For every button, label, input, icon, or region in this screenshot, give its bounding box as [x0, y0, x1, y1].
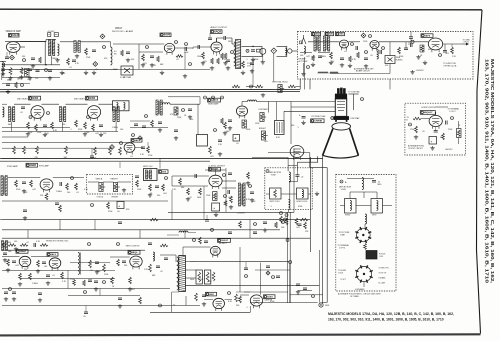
wire v20 vertical [259, 263, 261, 295]
wire bottom bus1 [2, 288, 170, 290]
tube V16 horiz osc b [49, 258, 61, 268]
tuner cap c [379, 50, 381, 54]
svg-text:COIL: COIL [247, 65, 251, 67]
svg-text:270K: 270K [410, 129, 415, 131]
svg-text:6BQ7: 6BQ7 [315, 34, 321, 36]
coil L2 tall [111, 47, 112, 51]
wire va out [241, 102, 243, 107]
resistor R58 [149, 264, 152, 272]
boxed label 6CB6 b [86, 96, 98, 100]
resistor R80 [232, 85, 240, 88]
wire if bus low [2, 157, 160, 159]
resistor R66 [280, 216, 283, 223]
wire vbus x323 [322, 156, 324, 303]
capacitor C9 [223, 36, 225, 40]
wire top flyback [167, 234, 179, 236]
wire h303 [250, 302, 318, 304]
resistor R20 [35, 124, 38, 131]
circled ref 42 [88, 243, 91, 246]
tube V7 uhf osc [428, 38, 442, 50]
svg-text:VERT OSC: VERT OSC [143, 166, 153, 168]
wire x204 drop [203, 186, 205, 220]
plug P2 [288, 49, 292, 53]
svg-text:470K: 470K [16, 189, 21, 191]
capacitor C79 [228, 231, 232, 233]
diamond tuner tp [361, 33, 366, 38]
wire if bus2 [2, 126, 70, 128]
label 5U4G damper [264, 295, 276, 299]
wire power h [240, 291, 250, 293]
antenna terminal [301, 38, 306, 44]
wire hv [183, 246, 210, 248]
svg-text:B: B [320, 304, 322, 307]
svg-text:VIDEO IF AMP: VIDEO IF AMP [6, 30, 22, 33]
capacitor C75 [303, 287, 307, 289]
resistor R1 [9, 68, 12, 76]
wire x276 drop [276, 102, 278, 121]
capacitor C72 [228, 119, 232, 121]
svg-text:560K: 560K [197, 197, 202, 199]
wire focus link [290, 294, 323, 296]
resistor R89 [221, 118, 224, 124]
svg-text:SYNC AMP: SYNC AMP [39, 165, 50, 168]
capacitor C64 [174, 129, 178, 131]
wire rail ext b [113, 43, 139, 45]
resistor R73 [23, 146, 26, 154]
resistor R22 [84, 122, 87, 129]
wire crt to yoke box [296, 162, 298, 171]
speaker plug P1 [260, 48, 266, 54]
resistor R88 [217, 58, 220, 64]
svg-text:.047: .047 [306, 56, 310, 58]
wire crt drive 1 [268, 102, 270, 113]
boxed label 6AW8 [26, 163, 38, 167]
transformer T12 flyback [179, 256, 186, 292]
ground G14 [349, 64, 351, 66]
resistor R26 row [65, 146, 68, 154]
wire jack drop [273, 54, 275, 81]
circled ref 46 [23, 59, 26, 62]
wire crt left drop [290, 102, 292, 145]
svg-text:OSC: OSC [339, 34, 344, 36]
ion trap magnet [331, 117, 334, 120]
capacitor C82 boxed plus [212, 203, 220, 211]
tube V13 sync amp [40, 179, 53, 190]
svg-text:MFD: MFD [378, 184, 383, 186]
svg-text:2ND VIDEO: 2ND VIDEO [17, 98, 28, 100]
diamond test point A [10, 55, 15, 60]
components bottom left row [8, 244, 16, 247]
wire audio top link [216, 38, 218, 42]
svg-text:HORIZ: HORIZ [345, 215, 350, 217]
svg-text:220K: 220K [113, 69, 118, 71]
capacitor C11 [318, 55, 322, 57]
transformer T13 focus coil [366, 251, 377, 260]
resistor R68 h [413, 117, 421, 120]
ground G29 [230, 205, 232, 207]
svg-text:100: 100 [120, 129, 123, 131]
svg-text:OF V1: OF V1 [464, 42, 469, 44]
wire drop x304 [304, 57, 306, 89]
svg-text:6BQ6: 6BQ6 [132, 252, 138, 254]
resistor R38 [149, 184, 152, 191]
tube V18 hv rect [210, 246, 220, 255]
resistor R44 [199, 188, 202, 195]
capacitor C55 [205, 219, 209, 221]
circled ref 16 [351, 43, 354, 46]
resistor R6 [142, 54, 145, 61]
wire neck right elbow [348, 93, 358, 95]
wire flyback top [175, 255, 177, 262]
svg-text:220K: 220K [399, 56, 404, 58]
circled ref 27 [71, 177, 74, 180]
capacitor C42 [156, 265, 160, 267]
capacitor C61 [31, 57, 35, 59]
resistor R4 [85, 48, 88, 55]
crt bell rim [332, 123, 351, 130]
circled ref 37 [409, 123, 412, 126]
resistor R30 [243, 121, 246, 128]
svg-text:470K: 470K [254, 59, 259, 61]
separator bus line lower [0, 91, 300, 93]
svg-text:270K: 270K [70, 279, 75, 281]
wire flyback down [173, 304, 175, 306]
wire sync rail [8, 177, 40, 179]
wire ho rails [2, 256, 20, 258]
transformer T14 left low [1, 241, 3, 251]
wire audio out top [216, 38, 218, 42]
circled ref 52 [132, 134, 135, 137]
resistor R57 [117, 259, 120, 266]
svg-text:470K: 470K [7, 80, 12, 82]
resistor R50 [7, 259, 10, 266]
capacitor C47 bl [84, 311, 88, 313]
circled ref 20 [307, 66, 310, 69]
boxed resistor R96 [213, 192, 217, 201]
capacitor C19 [99, 124, 103, 126]
svg-text:270K: 270K [86, 57, 91, 59]
svg-text:.02: .02 [160, 271, 163, 273]
resistor R49 [304, 222, 307, 229]
tube V4 label 6AQ5 [211, 30, 223, 34]
wire y262 ext [70, 262, 110, 264]
horiz band drop x250 [249, 220, 251, 239]
resistor R8 [176, 55, 183, 58]
wire lower link x68 [67, 271, 69, 289]
resistor R82 [151, 120, 154, 127]
ground G55 [264, 228, 266, 230]
circled ref 22 [47, 112, 50, 115]
svg-text:1 MEG: 1 MEG [56, 191, 62, 193]
wire y292 [244, 291, 288, 293]
wire y270b [255, 269, 290, 271]
svg-text:.05: .05 [422, 131, 425, 133]
svg-text:.1: .1 [246, 307, 248, 309]
svg-text:+: + [118, 204, 120, 208]
wire if rail b [66, 103, 88, 105]
svg-text:HORIZ COILS: HORIZ COILS [297, 201, 309, 203]
capacitor C6 [150, 55, 154, 57]
svg-text:560K: 560K [246, 129, 251, 131]
coil L4 ant [304, 46, 306, 49]
resistor R9 [202, 52, 205, 59]
wire vbus x294 [293, 149, 295, 213]
resistor R81 [39, 57, 42, 63]
ground G52 [49, 76, 51, 78]
wire yoke loop [350, 192, 377, 199]
wire y278 bus [20, 278, 115, 280]
boxed resistor R71 [457, 129, 462, 138]
wire flyback left down [171, 292, 173, 312]
diamond jack J1 [271, 48, 277, 54]
bottom margin bar [0, 334, 481, 335]
svg-text:+250VDC: +250VDC [416, 70, 425, 72]
svg-text:.01: .01 [52, 275, 55, 277]
boxed coil yoke left [270, 188, 282, 199]
ground G39 [415, 135, 417, 137]
tube V4 audio output [211, 42, 222, 52]
pot brightness [261, 131, 265, 140]
tube V1 video IF amp [6, 42, 20, 53]
resistor R40 [45, 193, 48, 200]
wire crt drive 2 [269, 101, 292, 103]
ground G7 [142, 63, 144, 65]
video amp cref row [204, 96, 207, 99]
wire y2855 [186, 284, 319, 286]
wire if bus1 [2, 131, 118, 133]
ground G59 [247, 181, 249, 183]
circled ref 49 [145, 115, 148, 118]
resistor R90 [73, 280, 76, 286]
speaker 2 loop [277, 46, 287, 56]
left edge stub coil [3, 107, 5, 110]
wire T1 bottom drop [51, 56, 53, 65]
svg-text:220K: 220K [448, 129, 453, 131]
svg-text:.001: .001 [143, 63, 147, 65]
ground G24 [219, 152, 221, 154]
resistor R70 [442, 133, 445, 140]
resistor R14 [312, 55, 315, 61]
ground G11 [262, 93, 264, 95]
capacitor C29 boxed [117, 202, 124, 209]
tube V9 3rd video if [87, 106, 100, 119]
wire if top left [2, 103, 7, 105]
svg-text:100: 100 [14, 241, 17, 243]
wire v7 out [443, 43, 462, 45]
sync bus extension [160, 200, 168, 202]
transformer T4 rf input [314, 36, 316, 51]
wire af link [175, 47, 193, 49]
wire crt grid lines [291, 101, 335, 103]
resistor R11 [255, 85, 263, 88]
ground G31 yoke [316, 192, 318, 194]
capacitor C30 [55, 202, 59, 204]
circled ref 45 [185, 43, 188, 46]
crt bottom wire staircase [310, 156, 327, 167]
wire x172 links [171, 176, 173, 186]
svg-text:100: 100 [67, 192, 70, 194]
pot vert hold [99, 183, 103, 192]
capacitor C46 [202, 294, 206, 296]
coil L14 tuner bottom [318, 72, 320, 74]
capacitor C62 [244, 267, 248, 269]
svg-text:120K: 120K [197, 56, 202, 58]
svg-text:1 MEG: 1 MEG [32, 283, 38, 285]
capacitor C32 [227, 190, 229, 194]
page frame right border [477, 10, 483, 334]
svg-text:1 OF T4: 1 OF T4 [449, 111, 455, 113]
vert controls dashed box [87, 174, 133, 194]
svg-text:.05: .05 [160, 112, 163, 114]
arrow to grid V1 [462, 43, 468, 45]
tube V21 horiz output alt [429, 115, 442, 126]
pot contrast [260, 113, 264, 122]
svg-text:HEIGHT: HEIGHT [112, 197, 120, 199]
svg-text:VERT: VERT [372, 215, 376, 217]
svg-text:120K: 120K [255, 123, 260, 125]
capacitor C77 cluster [266, 265, 270, 267]
boxed label 6W4 [206, 292, 217, 296]
resistor R87 [211, 58, 214, 64]
boxed label T1 pri [48, 33, 51, 37]
wire V1 top left [5, 41, 13, 43]
svg-text:4.5 MC: 4.5 MC [48, 31, 55, 33]
capacitor C54 [148, 242, 152, 244]
wire drop x300 [299, 79, 301, 89]
transformer T10 left edge [1, 176, 3, 196]
boxed label osc [336, 32, 345, 35]
svg-text:.1: .1 [70, 129, 72, 131]
svg-text:.05: .05 [83, 316, 86, 318]
svg-text:4 SPEAKER: 4 SPEAKER [355, 288, 365, 291]
tube V12 vert blanking [290, 146, 304, 158]
left edge coil input [2, 62, 4, 65]
crt bell bottom dish [322, 155, 358, 158]
svg-text:AT TUNER: AT TUNER [299, 60, 308, 63]
wire detail rails [340, 205, 345, 207]
wire y3123 [150, 311, 250, 313]
resistor R46 [275, 222, 278, 228]
svg-text:.05: .05 [95, 69, 98, 71]
coil L9 yoke bottom [289, 200, 291, 203]
node dot speaker [252, 46, 254, 48]
circled ref 13 [175, 41, 178, 44]
ground G4 [61, 71, 63, 73]
svg-text:100: 100 [62, 73, 65, 75]
wire y2905 stub [298, 290, 312, 292]
ground G36 [96, 270, 98, 272]
coil L15 top flyback [179, 231, 181, 233]
svg-text:YOKE: YOKE [341, 189, 347, 191]
wire S1 vertical 45 [44, 42, 46, 65]
ground G26 [123, 188, 125, 190]
wire V1 plate rail [13, 41, 46, 43]
svg-text:.001: .001 [163, 193, 167, 195]
boxed coil detail right [371, 199, 383, 214]
coil L8 yoke top [289, 172, 291, 174]
circled ref 56 [193, 239, 196, 242]
resistor R60 [129, 277, 132, 284]
svg-text:6AF4: 6AF4 [425, 34, 431, 37]
svg-text:ALTERNATE: FOLLW B (BOTL. CIRC: ALTERNATE: FOLLW B (BOTL. CIRCUIT USED W… [338, 292, 381, 295]
circled ref yoke detail [340, 180, 343, 183]
svg-text:.047: .047 [32, 189, 36, 191]
circled ref 14 [246, 49, 249, 52]
wire x253 drop [252, 58, 254, 87]
svg-text:.01: .01 [344, 51, 347, 53]
ground G35 [47, 281, 49, 283]
svg-text:TO PL OF: TO PL OF [379, 273, 387, 275]
component box delay line [275, 121, 285, 135]
wire yoke spine [289, 182, 291, 201]
resistor R10 [221, 53, 224, 59]
capacitor C51 boxed [429, 137, 437, 145]
tube V5 rf amp [339, 40, 348, 48]
svg-text:+: + [235, 136, 237, 140]
svg-text:330: 330 [22, 56, 25, 58]
ground G17 [412, 70, 414, 72]
tuner mid gnd [365, 64, 367, 66]
crystal box Y1 [385, 56, 395, 64]
svg-text:.005: .005 [264, 141, 268, 143]
tuner cref b [382, 47, 385, 50]
boxed coil yoke right [297, 188, 309, 199]
circled ref 15 [250, 85, 253, 88]
wire hbus3 [2, 237, 310, 239]
resistor R74 [109, 147, 112, 155]
resistor R47 [300, 218, 308, 221]
wire lower bus y295 [68, 295, 140, 297]
diamond test point B [100, 34, 105, 39]
crt neck [335, 99, 346, 117]
svg-text:+: + [213, 206, 215, 210]
resistor R24 [75, 120, 78, 127]
svg-text:220K: 220K [104, 274, 109, 276]
resistor R15 [349, 56, 352, 62]
circled ref 26 [214, 129, 217, 132]
wire v21 top [435, 112, 437, 115]
svg-text:ION TRAP: ION TRAP [351, 117, 361, 120]
ground G12 [330, 61, 332, 63]
svg-text:270K: 270K [363, 41, 368, 43]
crt pin stubs [337, 88, 339, 94]
capacitor C73 [94, 280, 98, 282]
ground G67 [215, 213, 217, 215]
circled ref 12 [146, 46, 149, 49]
boxed coil detail left [345, 199, 357, 214]
resistor R32 [209, 146, 212, 154]
ground G65 [251, 69, 253, 71]
wire x2898 vertical [289, 263, 291, 303]
svg-text:.047: .047 [296, 227, 300, 229]
capacitor C63 [158, 121, 162, 123]
wire hbus1 [2, 219, 310, 221]
transformer T2 coupling [74, 41, 76, 53]
capacitor C66 [164, 257, 168, 259]
wire to tuner edge [295, 50, 298, 52]
crt internal electrodes [337, 101, 345, 103]
capacitor C14 top [409, 36, 413, 38]
boxed label 6CB6 a [29, 96, 41, 100]
circled ref 50 [84, 291, 87, 294]
wire detail top [347, 178, 362, 180]
svg-text:12BY7: 12BY7 [211, 100, 219, 102]
wire x185 vert [184, 52, 186, 69]
circled ref 57 [103, 46, 106, 49]
boxed resistor R61 [196, 270, 202, 284]
capacitor C33 [250, 191, 254, 193]
capacitor C7 [184, 47, 186, 51]
